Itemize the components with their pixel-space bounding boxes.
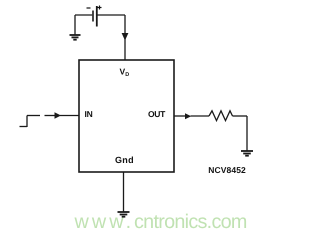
svg-text:NCV8452: NCV8452 <box>208 165 246 175</box>
svg-text:Gnd: Gnd <box>115 155 134 165</box>
svg-text:D: D <box>125 72 129 78</box>
svg-text:OUT: OUT <box>148 109 166 119</box>
svg-text:IN: IN <box>85 109 93 119</box>
svg-text:cntronics.com: cntronics.com <box>134 211 247 233</box>
